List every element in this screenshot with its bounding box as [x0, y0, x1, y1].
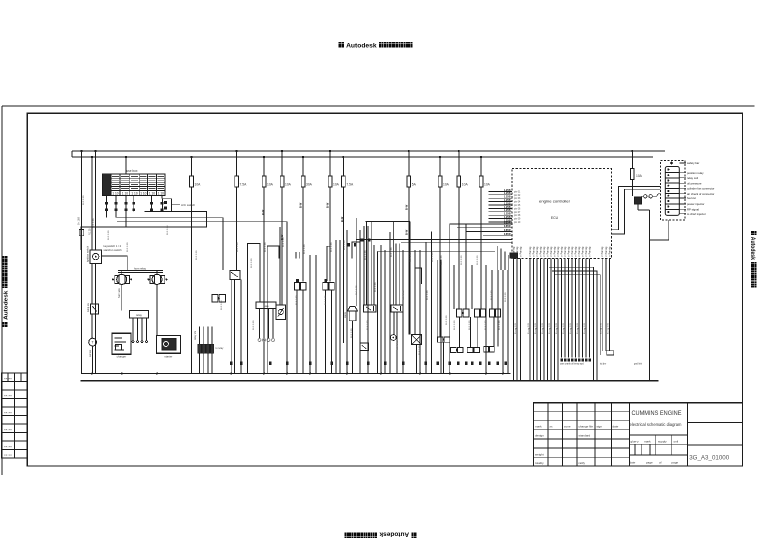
- svg-text:×× ××: ×× ××: [4, 453, 12, 457]
- svg-text:7.5A: 7.5A: [346, 183, 354, 187]
- svg-text:totality: totality: [535, 461, 544, 465]
- fuse F9 10A with wire: [439, 157, 441, 176]
- svg-text:engine controller: engine controller: [539, 199, 571, 203]
- svg-text:W-R 0.85f: W-R 0.85f: [391, 247, 393, 257]
- svg-text:relay xfe: relay xfe: [194, 330, 197, 340]
- relay bank: [199, 327, 201, 374]
- svg-text:10A: 10A: [333, 183, 340, 187]
- svg-text:Autodesk: Autodesk: [346, 43, 377, 50]
- wire ignition down A: [91, 264, 93, 304]
- ground bus upper: [81, 373, 510, 375]
- svg-text:W-R 0.85f: W-R 0.85f: [196, 250, 198, 260]
- fuse F7 7.5A with wire: [342, 157, 344, 176]
- svg-text:B-W: B-W: [405, 204, 409, 210]
- svg-text:B+ sig 0.85: B+ sig 0.85: [535, 322, 537, 334]
- svg-text:weight: weight: [535, 453, 544, 457]
- svg-text:30A: 30A: [306, 183, 313, 187]
- svg-text:pin 04: pin 04: [514, 202, 521, 204]
- watermark top: [339, 42, 413, 50]
- wire horizontal y221: [117, 221, 287, 223]
- starter M1: [156, 336, 180, 354]
- ECU left pin stubs: [489, 190, 512, 192]
- svg-text:standard: standard: [579, 434, 591, 438]
- ECU U1: [512, 169, 612, 259]
- svg-text:W-R 0.85f: W-R 0.85f: [499, 320, 501, 330]
- svg-text:W-R 0.85f: W-R 0.85f: [454, 320, 456, 330]
- svg-text:×× ××: ×× ××: [4, 445, 12, 449]
- svg-text:pin 07: pin 07: [514, 212, 521, 214]
- wire below lamp switch: [91, 314, 93, 338]
- svg-text:W-R 0.85f: W-R 0.85f: [505, 292, 507, 302]
- svg-text:0.85R: 0.85R: [504, 229, 511, 232]
- svg-text:B+ sig 0.85: B+ sig 0.85: [584, 322, 586, 334]
- svg-text:pin 06: pin 06: [514, 208, 521, 210]
- svg-text:starter: starter: [164, 355, 172, 359]
- svg-text:lamp sw: lamp sw: [87, 303, 90, 312]
- ground junctions: [91, 373, 93, 375]
- connector J9: [438, 337, 444, 342]
- svg-text:0.85R: 0.85R: [504, 225, 511, 228]
- sensor S8: [467, 347, 473, 352]
- wire bus to fuse box: [125, 157, 127, 174]
- svg-text:n Pwr sig: n Pwr sig: [588, 246, 591, 257]
- svg-text:T: T: [92, 341, 94, 345]
- svg-text:safety bar: safety bar: [687, 161, 699, 165]
- wire jog 6: [365, 222, 367, 305]
- svg-text:×× ××: ×× ××: [4, 377, 12, 381]
- svg-text:W-R 0.85f: W-R 0.85f: [237, 242, 239, 252]
- svg-text:W-R 0.85f: W-R 0.85f: [441, 255, 443, 265]
- svg-text:change file: change file: [579, 425, 594, 429]
- svg-text:W-R 0.85f: W-R 0.85f: [367, 320, 369, 330]
- svg-text:ECU: ECU: [551, 216, 559, 220]
- svg-text:B+ sig 0.85: B+ sig 0.85: [542, 322, 544, 334]
- svg-text:zone: zone: [564, 425, 571, 429]
- svg-text:supply: supply: [658, 439, 667, 443]
- wire u-loop small: [415, 268, 422, 284]
- CAN twisted pair: [644, 195, 647, 198]
- svg-text:B-W: B-W: [298, 202, 302, 208]
- svg-text:start/run switch: start/run switch: [104, 248, 123, 252]
- svg-text:pin 01: pin 01: [514, 191, 521, 193]
- svg-text:W-R 0.85f: W-R 0.85f: [251, 258, 253, 268]
- svg-text:B+ sig 0.85: B+ sig 0.85: [528, 322, 530, 334]
- svg-text:A/C switch: A/C switch: [181, 203, 196, 207]
- ECU feed staircase: [496, 246, 498, 270]
- horn H2: [152, 274, 162, 284]
- wire end pin marks: [230, 362, 232, 365]
- svg-text:B-W: B-W: [405, 229, 409, 235]
- svg-text:B+ 16B: B+ 16B: [78, 217, 81, 225]
- power bus KEY (second): [72, 156, 653, 158]
- ECU bottom pin wires: [513, 259, 515, 381]
- ECU feed wires: [450, 223, 512, 225]
- switch box S5: [230, 270, 240, 279]
- svg-text:n Pwr sig: n Pwr sig: [608, 246, 611, 257]
- svg-text:W-R 0.85f: W-R 0.85f: [83, 195, 85, 205]
- svg-text:10A: 10A: [285, 183, 292, 187]
- svg-text:onli: onli: [674, 439, 679, 443]
- svg-text:relay coil: relay coil: [687, 176, 698, 180]
- svg-text:ratify: ratify: [579, 461, 586, 465]
- svg-text:W-R 0.85f: W-R 0.85f: [108, 230, 110, 240]
- svg-text:inj drv: inj drv: [600, 363, 607, 366]
- svg-text:page: page: [646, 460, 653, 464]
- svg-text:B+ sig 0.85: B+ sig 0.85: [515, 322, 517, 334]
- svg-text:n Pwr sig: n Pwr sig: [601, 246, 604, 257]
- svg-text:W-R 0.85f: W-R 0.85f: [325, 295, 327, 305]
- svg-text:W-R 0.85f: W-R 0.85f: [427, 290, 429, 300]
- svg-text:pin 02: pin 02: [514, 195, 521, 197]
- svg-text:B-W: B-W: [325, 202, 329, 208]
- svg-text:0.85R: 0.85R: [504, 221, 511, 224]
- svg-text:Autodesk: Autodesk: [749, 237, 756, 261]
- bus left end tie: [71, 151, 73, 157]
- wire jog 8: [393, 222, 395, 305]
- drawing frame: [27, 113, 742, 466]
- fuse F5 30A with wire: [302, 157, 304, 176]
- wire long feed 1: [356, 239, 512, 241]
- wire horizontal feed: [117, 217, 223, 219]
- svg-text:W-R 0.85f: W-R 0.85f: [469, 320, 471, 330]
- svg-text:B+ sig 0.85: B+ sig 0.85: [608, 322, 610, 334]
- svg-text:W-R 0.85f: W-R 0.85f: [403, 290, 405, 300]
- wire pair u2: [396, 243, 399, 304]
- fuse F2 7.5A with wire: [236, 151, 238, 176]
- sensor labels right cluster: [561, 359, 563, 362]
- wire from fuse box: [125, 195, 127, 227]
- svg-text:W-R 0.85f: W-R 0.85f: [304, 244, 306, 254]
- sensor S7: [451, 347, 457, 352]
- svg-text:cam crank oil temp spd: cam crank oil temp spd: [560, 363, 584, 366]
- wire ECU right 2: [611, 189, 660, 234]
- fuse F8 5A with wire: [408, 151, 410, 176]
- fuse F4 10A with wire: [281, 151, 283, 176]
- watermark right (rotated): [749, 231, 757, 287]
- svg-text:pin 05: pin 05: [514, 205, 521, 207]
- svg-text:B+ sig 0.85: B+ sig 0.85: [549, 322, 551, 334]
- wire ignition down B: [95, 264, 97, 374]
- wire long feed 2: [401, 241, 512, 243]
- svg-text:B+ sig 0.85: B+ sig 0.85: [570, 322, 572, 334]
- sender circle: [390, 335, 396, 341]
- svg-text:B-W: B-W: [261, 209, 265, 215]
- svg-text:1 10: 1 10: [112, 192, 118, 196]
- svg-text:W-R 0.85f: W-R 0.85f: [351, 328, 353, 338]
- sensor connector J6: [456, 309, 462, 317]
- svg-text:W-R 0.85f: W-R 0.85f: [265, 242, 267, 252]
- svg-text:W-R 0.85f: W-R 0.85f: [432, 252, 434, 262]
- box with X: [412, 335, 422, 345]
- wire from fuse box: [106, 195, 108, 217]
- svg-text:fuse: fuse: [263, 304, 269, 308]
- svg-text:pin 03: pin 03: [514, 198, 521, 200]
- wire battery drop left: [81, 151, 83, 374]
- wire pair u1: [296, 252, 299, 259]
- svg-text:B-W: B-W: [340, 216, 344, 222]
- inline fuse on battery wire: [79, 230, 83, 236]
- svg-text:relay: relay: [136, 313, 143, 317]
- svg-text:B+ sig 0.85: B+ sig 0.85: [556, 322, 558, 334]
- wire horn1 down: [121, 285, 123, 311]
- gauge T1 (temp): [89, 338, 97, 346]
- svg-text:sign: sign: [597, 425, 603, 429]
- wire jog 5: [327, 246, 331, 281]
- svg-text:W-R 0.85f: W-R 0.85f: [477, 255, 479, 265]
- svg-text:W-R 0.85f: W-R 0.85f: [283, 237, 285, 247]
- wire vertical cluster (mid): [230, 279, 232, 373]
- switch S6: [276, 305, 286, 320]
- connector J3: [212, 295, 218, 303]
- svg-text:W-R 0.85f: W-R 0.85f: [491, 290, 493, 300]
- svg-text:W-R 0.85f: W-R 0.85f: [127, 242, 129, 252]
- svg-text:date: date: [613, 425, 619, 429]
- svg-text:B+ sig 0.85: B+ sig 0.85: [577, 322, 579, 334]
- svg-text:W-R 0.85f: W-R 0.85f: [296, 295, 298, 305]
- svg-text:Autodesk: Autodesk: [379, 530, 409, 537]
- svg-text:fuse box: fuse box: [125, 169, 137, 173]
- svg-text:xx: xx: [550, 425, 554, 429]
- svg-text:glue-y: glue-y: [631, 439, 640, 443]
- svg-text:W-R 0.85f: W-R 0.85f: [356, 285, 358, 295]
- svg-text:fuel cut: fuel cut: [687, 196, 696, 200]
- title block: [534, 403, 743, 466]
- relay K2: [364, 305, 376, 312]
- svg-text:1 10: 1 10: [122, 192, 128, 196]
- svg-text:10A: 10A: [462, 183, 469, 187]
- sheet outer border top: [2, 105, 755, 107]
- connector X1 labels: [679, 162, 686, 164]
- wire long feed 4: [378, 250, 495, 252]
- svg-text:×× ××: ×× ××: [4, 394, 12, 398]
- speaker SP1: [348, 307, 358, 312]
- wire jog 7: [371, 222, 373, 305]
- svg-text:×× ××: ×× ××: [4, 428, 12, 432]
- wire ignition branch: [95, 264, 97, 271]
- svg-text:keyswitch 1 / 2: keyswitch 1 / 2: [104, 244, 122, 248]
- svg-text:oil pressure: oil pressure: [687, 181, 702, 185]
- svg-text:RP signal: RP signal: [687, 208, 699, 212]
- wire key drop A: [91, 157, 93, 250]
- svg-text:ignition switch: ignition switch: [86, 245, 90, 262]
- svg-text:W-R 0.85f: W-R 0.85f: [446, 315, 448, 325]
- svg-text:0.85R: 0.85R: [504, 233, 511, 236]
- relay K3: [391, 305, 403, 312]
- small box B5: [360, 343, 369, 350]
- svg-text:date: date: [630, 460, 636, 464]
- connector J4: [294, 283, 299, 290]
- wire ECU right 1: [611, 187, 660, 230]
- watermark left (rotated): [2, 256, 9, 327]
- svg-text:7.5A: 7.5A: [240, 183, 248, 187]
- wire from fuse box: [133, 195, 135, 211]
- svg-text:alarm: alarm: [344, 312, 347, 318]
- fuse F10 10A with wire: [458, 151, 460, 176]
- ECU corner blob: [510, 253, 518, 258]
- fuse F12 10A (right): [631, 150, 633, 152]
- lamp switch box: [91, 304, 99, 314]
- svg-text:×× ××: ×× ××: [4, 411, 12, 415]
- wire from fuse box: [115, 195, 117, 217]
- horn H1: [117, 274, 127, 284]
- svg-text:W-R 0.85f: W-R 0.85f: [221, 300, 223, 310]
- svg-text:1 10: 1 10: [131, 192, 137, 196]
- wire from fuse box: [161, 195, 163, 198]
- horn link bar: [118, 270, 163, 272]
- fuse F11 10A with wire: [480, 157, 482, 176]
- wire bracket 2: [552, 271, 597, 381]
- svg-text:10A: 10A: [195, 183, 202, 187]
- wire jog n1: [248, 244, 261, 259]
- svg-text:electrical schematic diagram: electrical schematic diagram: [630, 422, 682, 427]
- svg-text:to chief injector: to chief injector: [687, 212, 706, 216]
- ground bus lower: [81, 380, 659, 382]
- svg-text:of: of: [659, 460, 662, 464]
- svg-text:mark: mark: [644, 439, 651, 443]
- svg-text:1 10: 1 10: [158, 192, 164, 196]
- svg-text:sensor: sensor: [89, 350, 92, 357]
- svg-text:to relay: to relay: [216, 347, 225, 350]
- svg-text:W-R 0.85f: W-R 0.85f: [461, 255, 463, 265]
- wire jog n3: [352, 242, 360, 259]
- flasher relay box: [129, 310, 148, 318]
- ignition switch S1: [90, 250, 102, 264]
- svg-text:B+ sig 0.85: B+ sig 0.85: [601, 322, 603, 334]
- svg-text:position relay: position relay: [687, 171, 704, 175]
- svg-text:W-R 0.85f: W-R 0.85f: [331, 242, 333, 252]
- svg-text:W-R 0.85f: W-R 0.85f: [410, 252, 412, 262]
- svg-text:horn wire: horn wire: [118, 287, 121, 298]
- junction box JB1: [256, 302, 276, 309]
- svg-text:10A: 10A: [484, 183, 491, 187]
- svg-text:CUMMINS ENGINE: CUMMINS ENGINE: [632, 410, 682, 417]
- svg-text:10A: 10A: [636, 174, 643, 178]
- svg-text:W-R 0.85f: W-R 0.85f: [344, 240, 346, 250]
- wire jog 1: [366, 221, 410, 223]
- svg-text:pin 08: pin 08: [514, 215, 521, 217]
- svg-text:3G_A3_01000: 3G_A3_01000: [689, 455, 729, 462]
- wire jog 2: [401, 241, 426, 243]
- wire right vertical: [649, 210, 651, 381]
- svg-text:mark: mark: [535, 425, 542, 429]
- svg-text:W-R 0.85f: W-R 0.85f: [419, 345, 421, 355]
- svg-text:W-R 0.85f: W-R 0.85f: [397, 340, 399, 350]
- svg-text:W-R 0.85f: W-R 0.85f: [93, 218, 95, 228]
- connector pins below fuse box: [105, 202, 107, 204]
- connector J5: [323, 283, 328, 290]
- svg-text:pin 09: pin 09: [514, 219, 521, 221]
- body connector X1: [661, 160, 686, 220]
- fuse F6 10A with wire: [329, 151, 331, 176]
- small box right: [607, 351, 614, 355]
- svg-text:power injector: power injector: [687, 202, 704, 206]
- wire bracket 3: [555, 275, 600, 355]
- svg-text:page: page: [672, 460, 679, 464]
- wire jog n2: [267, 246, 279, 259]
- svg-text:1 10: 1 10: [149, 192, 155, 196]
- relay K4 (right): [635, 197, 642, 204]
- svg-text:W-R 0.85f: W-R 0.85f: [485, 320, 487, 330]
- svg-text:R1.25: R1.25: [88, 228, 91, 235]
- svg-text:W-R 0.85f: W-R 0.85f: [167, 225, 169, 235]
- sensor connector J8: [489, 309, 494, 317]
- svg-text:1 10: 1 10: [140, 192, 146, 196]
- wire horn2 down: [156, 285, 158, 336]
- power bus B+ (top): [72, 150, 665, 152]
- svg-text:W-R 0.85f: W-R 0.85f: [253, 320, 255, 330]
- wire from fuse box: [150, 195, 152, 211]
- alternator G1: [112, 333, 131, 354]
- svg-text:cylinder fan connector: cylinder fan connector: [687, 187, 714, 191]
- wire ignition feed: [102, 256, 128, 271]
- svg-text:horn relay: horn relay: [134, 266, 147, 270]
- svg-text:10A: 10A: [267, 183, 274, 187]
- A/C control box: [163, 199, 172, 212]
- svg-text:B+ sig 0.85: B+ sig 0.85: [563, 322, 565, 334]
- svg-text:n Pwr sig: n Pwr sig: [519, 246, 522, 257]
- fuse box table: [103, 174, 166, 196]
- svg-text:W-R 0.85f: W-R 0.85f: [375, 282, 377, 292]
- svg-text:design: design: [535, 434, 544, 438]
- wire feed drop: [222, 218, 224, 270]
- wire connector bottom drop: [650, 220, 669, 240]
- wire key drop B: [95, 151, 97, 250]
- fuse F3 10A with wire: [263, 157, 265, 176]
- wire bracket 1: [549, 267, 594, 381]
- svg-text:charger: charger: [117, 355, 127, 359]
- svg-text:pin 10: pin 10: [514, 222, 521, 224]
- sheet outer border left: [1, 106, 3, 475]
- svg-text:gnd link: gnd link: [634, 364, 643, 366]
- revision strip table: [2, 373, 28, 458]
- wire loop under fuse box: [81, 212, 207, 251]
- svg-text:Autodesk: Autodesk: [4, 290, 10, 320]
- sensor S9: [484, 347, 489, 352]
- watermark bottom (rotated): [345, 530, 417, 538]
- svg-text:10A: 10A: [443, 183, 450, 187]
- fuse F1 10A with wire: [191, 157, 193, 176]
- sensor connector J7: [475, 309, 480, 317]
- svg-text:W-R 0.85f: W-R 0.85f: [365, 250, 367, 260]
